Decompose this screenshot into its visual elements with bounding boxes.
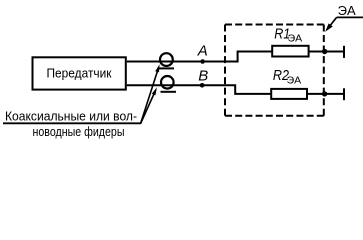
wire R2 to terminal: [307, 93, 344, 95]
terminal bar bottom: [343, 88, 345, 100]
svg-text:ЭА: ЭА: [338, 3, 356, 18]
coax clamp top: [160, 53, 173, 66]
svg-text:A: A: [197, 43, 208, 60]
terminal bar top: [343, 46, 345, 58]
coax clamp top bar: [159, 67, 174, 69]
svg-text:новодные фидеры: новодные фидеры: [33, 125, 125, 139]
svg-text:Коаксиальные или вол-: Коаксиальные или вол-: [5, 110, 137, 124]
feeder note shelf: [3, 122, 141, 124]
feeder leader top arrowhead: [155, 64, 159, 72]
label EA leader: [327, 17, 337, 29]
resistor R2 label: [273, 67, 289, 83]
node B dot: [200, 83, 205, 88]
equivalent antenna dashed box bottom edge: [225, 115, 324, 117]
wire bottom feeder: [127, 85, 271, 94]
wire R1 to terminal: [309, 51, 344, 53]
feeder leader to top clamp: [141, 69, 159, 124]
resistor R1 label: [274, 25, 290, 41]
label EA shelf: [337, 16, 363, 18]
equivalent antenna dashed box right edge: [323, 25, 325, 116]
junction dot bottom: [322, 91, 327, 96]
coax clamp bottom bar: [161, 91, 177, 93]
equivalent antenna dashed box left edge: [224, 25, 226, 116]
feeder leader to bottom clamp: [141, 91, 156, 124]
feeder leader bottom arrowhead: [152, 87, 157, 95]
svg-text:ЭА: ЭА: [288, 33, 303, 45]
node A dot: [200, 59, 205, 64]
resistor R1 body: [272, 46, 308, 57]
resistor R2 body: [271, 89, 307, 99]
equivalent antenna dashed box top edge: [225, 24, 324, 26]
transmitter box: [33, 57, 126, 89]
label EA arrowhead: [325, 23, 333, 31]
coax clamp bottom: [161, 76, 174, 89]
svg-text:ЭА: ЭА: [287, 75, 302, 87]
wire top feeder: [127, 52, 272, 62]
junction dot top: [322, 49, 327, 54]
svg-text:Передатчик: Передатчик: [47, 65, 112, 80]
svg-text:B: B: [198, 68, 208, 85]
